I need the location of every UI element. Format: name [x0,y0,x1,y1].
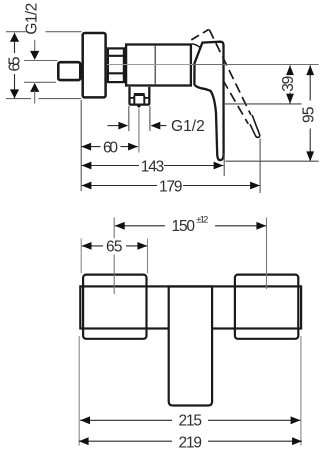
svg-text:215: 215 [179,413,203,430]
union upper reference line [24,60,57,62]
up arrow pointing to union bottom [30,83,39,104]
handle lever (solid, closed position) [194,42,223,160]
extension line at lever tip (143) [223,153,225,176]
extension line at dashed lever tip (179) [259,139,261,194]
handle (front) [169,287,212,406]
dimension 95 (vertical, far right) [300,65,317,161]
center extension line of left union [113,218,115,295]
svg-text:±12: ±12 [196,215,208,226]
dimension 215 [80,413,300,430]
svg-text:G1/2: G1/2 [171,118,205,135]
G1/2 vertical label (top left) [24,3,41,35]
outlet centerline [138,109,140,153]
svg-text:143: 143 [141,158,165,175]
svg-text:65: 65 [6,57,23,72]
svg-text:95: 95 [300,107,317,124]
mixer body (side view) [126,45,191,86]
svg-text:60: 60 [103,140,118,157]
reference line B (outlet axis, right) [224,103,302,105]
outlet fitting G1/2 below body [130,87,150,108]
body bar (front) [80,286,301,328]
dashed handle right edge line [209,30,251,115]
dimension 60 [81,140,138,157]
svg-text:219: 219 [179,434,203,450]
dashed handle (open position) top edge [191,29,209,40]
dimension 65 (front) [82,238,148,255]
dimension 143 [82,158,224,175]
bottom extension lines [79,336,301,446]
svg-text:150: 150 [172,218,196,235]
dimension 179 [82,179,260,196]
rotated lever tip (solid outline) [250,115,260,138]
dimension 39 (vertical, right) [280,65,297,103]
dimension 150±12 [115,215,266,236]
center extension line of right union [266,218,268,290]
svg-text:65: 65 [106,238,123,255]
reference line C (lever tip level, right) [226,160,319,162]
svg-text:39: 39 [280,76,297,92]
wall extension line (left, vertical) [80,100,82,191]
G1/2 outlet dimension arrows and label [108,118,206,135]
leader from G1/2 down arrow [30,40,39,60]
dimension 65 (vertical, top-left) [6,32,82,99]
left escutcheon (front) [83,275,146,339]
G1/2 outlet extension lines [129,106,150,131]
svg-text:G1/2: G1/2 [24,3,41,35]
right escutcheon (front) [235,275,298,339]
union lower reference line [24,81,56,83]
wall union (G1/2 connector, side view) [58,62,80,80]
hex nut between escutcheon and body [107,48,125,82]
dashed handle left edge line [224,82,248,124]
arc from body corner to handle [192,44,200,47]
65 extension lines (front) [81,239,147,274]
dimension 219 [79,434,302,450]
escutcheon (side view) [83,33,106,97]
centerline A (body axis extended right) [107,64,319,66]
svg-text:179: 179 [159,179,183,196]
